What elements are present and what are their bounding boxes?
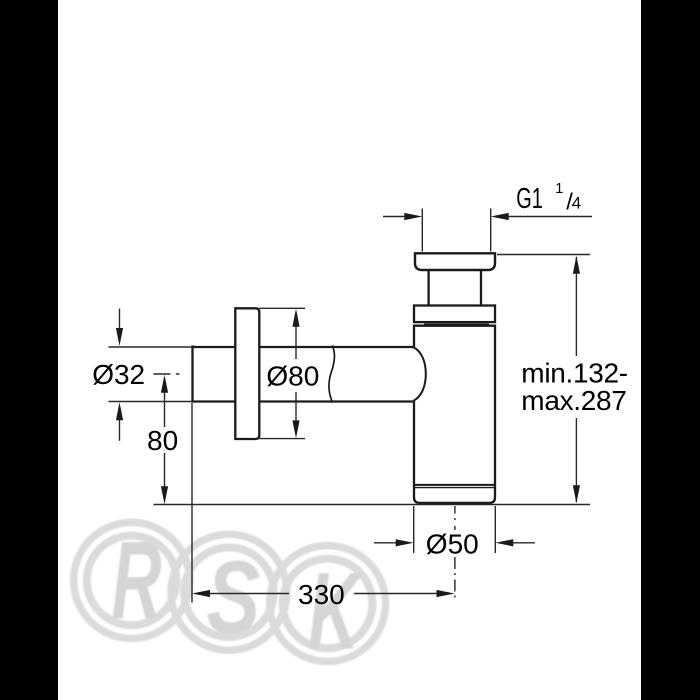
pipe centerline mark bbox=[153, 373, 192, 375]
Dia32 extension line bottom bbox=[109, 401, 193, 403]
svg-text:Ø80: Ø80 bbox=[266, 361, 319, 392]
Dia80 dimension line bbox=[295, 324, 297, 423]
Dia80 extension line top bbox=[259, 307, 305, 309]
G1 1/4 dimension line left part bbox=[383, 216, 405, 218]
body bottom seam lines bbox=[414, 484, 495, 486]
inlet pipe top edge bbox=[193, 346, 414, 348]
G1 1/4 extension line left bbox=[421, 209, 423, 252]
Dia50 left leader bbox=[374, 542, 397, 544]
min-max top arrow bbox=[573, 256, 580, 274]
80 dimension line bbox=[164, 391, 166, 488]
inlet pipe bottom edge bbox=[193, 400, 414, 402]
Dia50 right leader bbox=[512, 542, 535, 544]
min-max bottom extension line bbox=[154, 504, 591, 506]
Dia50 right arrow pointing left-tip bbox=[396, 539, 414, 546]
G1 1/4 extension line right bbox=[490, 209, 492, 252]
watermark circle R bbox=[74, 522, 190, 638]
min-max bottom arrow bbox=[573, 485, 580, 503]
Dia32 dimension line upper bbox=[119, 309, 121, 331]
330 left arrow bbox=[192, 590, 210, 597]
Dia32 down arrow bbox=[116, 328, 123, 346]
Dia80 up arrow bbox=[292, 309, 299, 327]
330 dimension line bbox=[210, 593, 437, 595]
G1 1/4 left arrow bbox=[404, 213, 422, 220]
svg-text:Ø50: Ø50 bbox=[426, 529, 479, 560]
seam line under flange bbox=[424, 323, 489, 325]
330 right arrow bbox=[437, 590, 455, 597]
Dia50 extension line right bbox=[494, 506, 496, 553]
Dia80 down arrow bbox=[292, 420, 299, 438]
330 left extension line bbox=[191, 403, 193, 603]
svg-text:4: 4 bbox=[572, 193, 581, 212]
pipe break mark bbox=[329, 345, 334, 402]
80 up arrow bbox=[161, 375, 168, 393]
G1 1/4 dimension line right part bbox=[508, 216, 592, 218]
Dia32 up arrow bbox=[116, 402, 123, 420]
Dia80 extension line bottom bbox=[259, 438, 305, 440]
neck pipe bbox=[429, 270, 481, 306]
inlet pipe left end cap bbox=[191, 345, 193, 402]
svg-text:1: 1 bbox=[555, 181, 563, 197]
Dia32 dimension line lower bbox=[119, 419, 121, 441]
Dia32 extension line top bbox=[109, 346, 193, 348]
svg-text:R: R bbox=[112, 520, 162, 642]
min-max dimension line bbox=[575, 257, 577, 502]
escutcheon flange bbox=[235, 308, 259, 439]
body centerline below bbox=[454, 506, 456, 530]
watermark circle K bbox=[270, 546, 386, 662]
Dia50 left-pointing arrow at right bbox=[495, 539, 513, 546]
svg-text:G1: G1 bbox=[516, 184, 543, 215]
svg-text:S: S bbox=[207, 539, 261, 655]
inlet arc into body bbox=[414, 347, 426, 401]
svg-text:max.287: max.287 bbox=[521, 385, 626, 416]
second flange bbox=[414, 306, 495, 323]
trap body outline bbox=[414, 326, 495, 503]
svg-text:80: 80 bbox=[147, 425, 178, 456]
watermark circle S bbox=[171, 534, 287, 650]
80 down arrow bbox=[161, 486, 168, 504]
svg-text:330: 330 bbox=[298, 579, 345, 610]
svg-text:K: K bbox=[308, 549, 364, 673]
min-max top extension line bbox=[497, 254, 590, 256]
svg-text:Ø32: Ø32 bbox=[92, 359, 145, 390]
top flange nut bbox=[415, 253, 495, 270]
Dia50 extension line left bbox=[413, 506, 415, 553]
G1 1/4 right arrow bbox=[491, 213, 509, 220]
